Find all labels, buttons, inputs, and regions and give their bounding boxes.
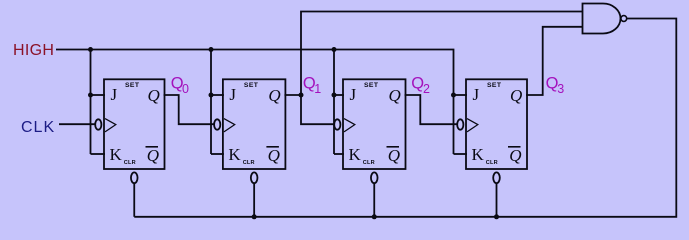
junction J node FF2 — [209, 93, 214, 98]
wire HIGH drop to FF2 J/K — [210, 50, 212, 155]
junction CLR rail / FF4 drop — [494, 214, 499, 219]
wire CLK input to FF1 clock — [59, 123, 95, 125]
label node Q0 — [171, 75, 189, 96]
wire HIGH drop to FF3 J/K — [333, 50, 335, 155]
svg-text:CLR: CLR — [243, 160, 255, 166]
junction HIGH rail / FF1 drop — [88, 47, 93, 52]
svg-text:CLR: CLR — [486, 160, 498, 166]
wire Q2 output FF3 to FF4 clock — [405, 95, 458, 124]
flip-flop U4 JK — [457, 79, 527, 183]
wire Q1 output FF2 to FF3 clock — [284, 95, 334, 124]
wire CLR drop FF2 — [253, 183, 255, 216]
flip-flop U1 JK — [95, 79, 164, 183]
junction CLR rail / FF3 drop — [372, 214, 377, 219]
flip-flop U2 JK — [214, 79, 285, 183]
wire K input stub FF1 — [91, 153, 106, 155]
NAND gate U5 — [583, 4, 627, 34]
junction J node FF3 — [332, 93, 337, 98]
wire HIGH rail (net HIGH, y=49.5) — [56, 50, 454, 155]
wire NAND output to CLR bus (right side + bottom rail) — [134, 19, 676, 217]
svg-text:K: K — [228, 145, 241, 164]
svg-text:Q: Q — [148, 86, 160, 105]
svg-text:J: J — [350, 85, 357, 104]
label node Q2 — [411, 75, 430, 96]
svg-text:HIGH: HIGH — [13, 42, 54, 59]
label node Q3 — [546, 75, 565, 96]
wire K input stub FF4 — [454, 153, 468, 155]
wire K input stub FF2 — [211, 153, 224, 155]
junction HIGH rail / FF2 drop — [209, 47, 214, 52]
flip-flop U3 JK — [334, 79, 405, 183]
junction CLR rail / FF2 drop — [252, 214, 257, 219]
wire J input stub FF4 — [454, 94, 468, 96]
svg-text:CLR: CLR — [124, 160, 136, 166]
svg-text:Q: Q — [509, 146, 521, 165]
wire CLR drop FF3 — [373, 183, 375, 216]
svg-text:K: K — [110, 145, 123, 164]
svg-text:SET: SET — [364, 82, 379, 89]
wire K input stub FF3 — [334, 153, 344, 155]
label node Q1 — [303, 75, 321, 96]
wire Q1 riser to NAND input A — [301, 12, 582, 96]
svg-text:J: J — [229, 85, 236, 104]
wire Q3 output FF4 to NAND input B — [526, 27, 582, 95]
svg-text:SET: SET — [244, 82, 259, 89]
svg-text:CLK: CLK — [21, 119, 55, 136]
svg-text:Q: Q — [389, 86, 401, 105]
wire J input stub FF2 — [211, 94, 224, 96]
svg-text:CLR: CLR — [363, 160, 375, 166]
svg-text:Q: Q — [268, 146, 280, 165]
wire CLR drop FF1 — [133, 183, 135, 216]
svg-text:J: J — [111, 85, 118, 104]
svg-text:Q: Q — [510, 86, 522, 105]
wire J input stub FF1 — [91, 94, 106, 96]
wire CLR drop FF4 — [496, 183, 498, 216]
junction J node FF1 — [88, 93, 93, 98]
svg-text:Q: Q — [388, 146, 400, 165]
svg-text:0: 0 — [182, 82, 189, 96]
wire J input stub FF3 — [334, 94, 344, 96]
junction HIGH rail / FF3 drop — [332, 47, 337, 52]
junction J node FF4 — [451, 93, 456, 98]
junction node Q1 (output / riser) — [299, 93, 304, 98]
svg-text:Q: Q — [268, 86, 280, 105]
wire Q0 output FF1 to FF2 clock — [164, 95, 214, 124]
svg-text:SET: SET — [487, 82, 502, 89]
svg-text:J: J — [473, 85, 480, 104]
svg-text:K: K — [472, 145, 485, 164]
svg-text:3: 3 — [557, 82, 564, 96]
svg-text:Q: Q — [147, 146, 159, 165]
svg-text:K: K — [349, 145, 362, 164]
svg-text:2: 2 — [423, 82, 430, 96]
svg-text:1: 1 — [314, 82, 321, 96]
svg-text:SET: SET — [125, 82, 140, 89]
wire HIGH drop to FF1 J/K — [90, 50, 92, 155]
